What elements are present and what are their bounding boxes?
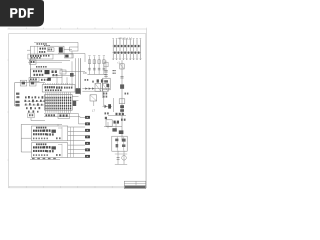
svg-text:C8: C8: [83, 71, 87, 75]
svg-text:L7: L7: [92, 109, 95, 113]
